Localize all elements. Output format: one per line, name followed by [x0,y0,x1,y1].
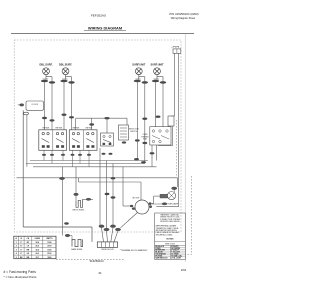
wire feeds to terminal block [100,148,115,228]
svg-text:26.0: 26.0 [36,246,40,248]
svg-text:4: 4 [16,252,17,255]
chassis dashed border right [186,176,192,255]
terminal block [97,242,117,251]
wire feed to motor [123,167,130,206]
wire feed to broil element [74,167,79,200]
svg-text:OHMS: OHMS [35,238,41,240]
wire SW3 lead terminals [134,139,147,163]
wire bus L2 [26,163,145,165]
svg-text:DBL.SURF.: DBL.SURF. [39,64,52,67]
infinite switch S1 [39,128,67,151]
svg-text:INF.SW.: INF.SW. [73,128,80,130]
surface unit switch SW4 [150,64,166,84]
svg-text:316259104: 316259104 [90,259,104,263]
svg-text:● OVEN LAMP: ● OVEN LAMP [165,202,178,205]
wire SW4 leads down [156,82,164,127]
svg-text:WATTS: WATTS [46,237,53,240]
svg-text:6″: 6″ [20,242,22,244]
oven selector S4 [119,125,140,144]
svg-text:INF.SW.: INF.SW. [43,128,50,130]
svg-text:BROIL ELEM.: BROIL ELEM. [73,210,85,212]
scan fold line [184,34,186,262]
wire switch drops to bus [44,150,89,167]
title WIRING DIAGRAM [84,25,126,30]
oven lamp switch [152,194,168,203]
svg-text:18.7: 18.7 [36,257,40,259]
svg-text:STAT: STAT [143,138,147,141]
svg-text:* = Non-Illustrated Parts: * = Non-Illustrated Parts [4,275,37,279]
svg-text:2/02: 2/02 [181,268,187,272]
surface unit switch SW3 [132,64,148,84]
console dashed border [14,40,181,232]
svg-text:LT BL LIGHT: LT BL LIGHT [171,258,181,260]
svg-text:2100: 2100 [47,246,51,248]
wire selector feed bus [76,117,127,133]
notes box [155,213,186,260]
svg-text:CLOCK: CLOCK [31,104,38,106]
svg-text:INF.SW.: INF.SW. [56,128,63,130]
svg-text:35.4: 35.4 [36,248,40,251]
svg-text:ERRORS CAN CAUSE: ERRORS CAN CAUSE [160,220,180,223]
oven door latch motor [130,197,167,214]
selector switch S3 [101,133,114,146]
svg-text:3000: 3000 [47,257,51,259]
svg-text:SECURE ALL LEADS.: SECURE ALL LEADS. [156,233,174,236]
wire bus L1 [30,160,148,162]
wire terminal block drops [102,228,119,242]
svg-text:SWITCH: SWITCH [130,131,138,133]
clock timer [18,101,44,115]
svg-text:2: 2 [16,246,17,248]
svg-text:*“TERMINAL BLOCK MARKING”: *“TERMINAL BLOCK MARKING” [120,249,148,252]
svg-text:8″: 8″ [20,246,22,248]
wire SW3 leads down [137,82,147,142]
surface unit switch SW2 [59,64,75,84]
oven lamp [165,187,178,205]
svg-text:NOTES: NOTES [167,239,175,241]
oven light switch SL [158,116,175,146]
svg-text:5: 5 [16,257,17,259]
svg-text:8″: 8″ [20,253,22,255]
connector terminals below switch row [42,153,113,156]
svg-text:26.0: 26.0 [36,253,40,255]
svg-text:1: 1 [16,242,17,244]
svg-text:1500: 1500 [47,242,51,244]
svg-text:WIRING DIAGRAM: WIRING DIAGRAM [88,25,122,30]
svg-text:TERM. BLOCK: TERM. BLOCK [101,249,115,251]
publication number text [169,12,198,20]
svg-text:SURF.UNIT: SURF.UNIT [150,64,164,67]
svg-text:P/N 316259104 (0203): P/N 316259104 (0203) [169,12,198,16]
svg-text:# = Fast-moving Parts: # = Fast-moving Parts [4,270,37,274]
oven thermostat [141,127,171,167]
oven section dashed border [175,120,177,176]
svg-text:MAR MAROON: MAR MAROON [155,257,168,260]
svg-text:3: 3 [16,249,17,251]
svg-text:DBL.SURF.: DBL.SURF. [59,64,72,67]
terminal block connectors [99,225,121,231]
surface unit chart table [14,236,56,259]
surface unit switch SW1 [39,64,55,84]
header rule [11,33,194,35]
svg-text:6″: 6″ [20,249,22,251]
infinite switch S2 [69,128,97,151]
wire oven lamp feed [17,177,178,187]
wire broil return [79,178,142,200]
chassis dashed border bottom [56,259,125,261]
svg-text:Wiring Diagram Sheet: Wiring Diagram Sheet [171,17,196,20]
svg-text:35.4: 35.4 [36,241,40,244]
svg-text:BAKE ELEM.: BAKE ELEM. [71,248,83,251]
wire bus N [33,166,157,168]
model number text FEF352AS [91,13,106,17]
wire SW2 leads down [62,82,75,130]
svg-text:MOTOR: MOTOR [133,197,140,199]
svg-text:+ P1 P2: + P1 P2 [171,47,180,49]
wire motor top feed [156,206,178,208]
oven light connector P1 [171,47,180,54]
wire clock feed [23,110,92,242]
svg-text:31: 31 [98,271,102,275]
wire connector P1 leads [175,53,179,206]
svg-text:1500: 1500 [47,249,51,251]
wire motor to terminal block diagonal [121,213,138,228]
wire SW1 leads down [42,82,55,130]
svg-text:FEF352AS: FEF352AS [91,13,106,17]
broil element [73,198,93,211]
bake element [62,167,83,251]
svg-text:2100: 2100 [47,253,51,255]
svg-text:SURF.UNIT: SURF.UNIT [132,64,146,67]
